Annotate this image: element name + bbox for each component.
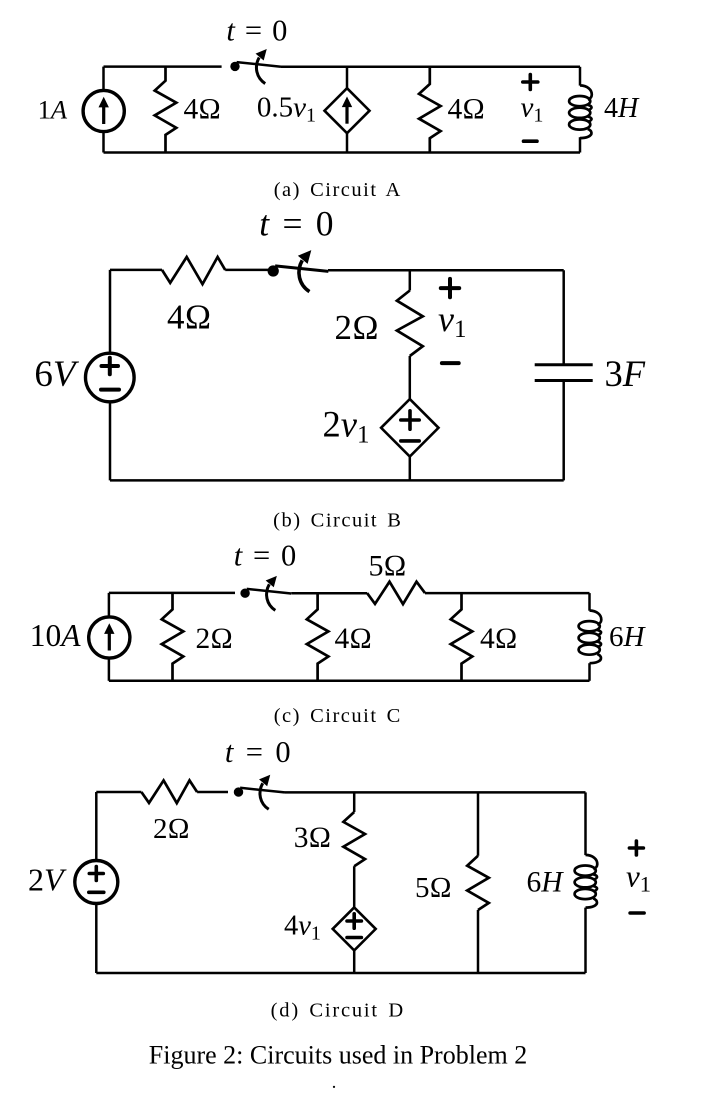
wire mid branch between (B)	[409, 356, 412, 399]
wire top rail mid (C)	[291, 592, 367, 595]
svg-text:(a) Circuit A: (a) Circuit A	[274, 179, 402, 201]
inductor 4H coil	[569, 85, 592, 138]
inductor 6H coil (C)	[579, 611, 602, 664]
svg-text:(c) Circuit C: (c) Circuit C	[274, 705, 402, 727]
switch t=0 (A)	[230, 50, 281, 84]
wire mid branch top (B)	[409, 270, 412, 290]
dependent current source 0.5v1 diamond	[325, 88, 370, 133]
svg-text:t = 0: t = 0	[226, 13, 288, 47]
svg-text:(b) Circuit B: (b) Circuit B	[273, 510, 402, 532]
resistor 4Ω right (A)	[419, 67, 441, 153]
resistor 4Ω first (C)	[307, 593, 329, 681]
wire top rail right (D)	[285, 791, 586, 794]
svg-text:2v1: 2v1	[323, 404, 370, 449]
voltage source 6V circle	[86, 353, 135, 402]
v1 minus mark (D)	[630, 911, 644, 915]
inductor 6H coil (D)	[575, 855, 598, 908]
current source 1A circle	[83, 90, 124, 131]
voltage source 6V minus	[101, 388, 119, 392]
wire top rail left (A)	[104, 65, 222, 68]
wire inductor bottom (C)	[588, 663, 591, 681]
svg-text:6H: 6H	[527, 867, 565, 899]
wire right side top (B)	[562, 270, 565, 365]
wire bottom rail (C)	[109, 680, 590, 683]
wire top rail right (B)	[328, 269, 564, 272]
svg-text:2Ω: 2Ω	[153, 813, 190, 845]
svg-text:4Ω: 4Ω	[480, 623, 517, 655]
dep source 4v1 plus	[347, 914, 361, 928]
svg-text:4Ω: 4Ω	[184, 93, 221, 125]
wire 5Ω branch top (D)	[477, 792, 480, 855]
wire right side bottom (B)	[562, 381, 565, 481]
wire top rail mid (D)	[197, 791, 228, 794]
wire dep source bottom (A)	[346, 133, 349, 152]
v1 minus mark (B)	[442, 361, 459, 365]
resistor 4Ω left (A)	[155, 67, 177, 153]
v1 plus mark (B)	[441, 279, 459, 297]
resistor 2Ω horizontal (D)	[141, 780, 197, 803]
wire left top (A)	[102, 67, 105, 91]
capacitor 3F bottom plate	[535, 379, 593, 382]
dependent voltage source 2v1 diamond	[381, 399, 438, 456]
dependent current source 0.5v1 arrow	[342, 97, 352, 124]
wire bottom rail (A)	[104, 151, 581, 154]
voltage source 2V circle	[75, 861, 118, 904]
svg-text:6H: 6H	[609, 621, 647, 653]
capacitor 3F top plate	[535, 363, 593, 366]
svg-text:v1: v1	[438, 299, 466, 343]
wire left bottom (C)	[108, 658, 111, 681]
voltage source 6V plus	[102, 358, 119, 375]
wire left side (B)	[109, 270, 112, 353]
svg-text:2Ω: 2Ω	[196, 623, 233, 655]
svg-text:(d) Circuit D: (d) Circuit D	[271, 1000, 405, 1022]
svg-text:t = 0: t = 0	[225, 735, 293, 769]
svg-text:6V: 6V	[34, 354, 80, 395]
svg-text:2V: 2V	[28, 862, 67, 898]
svg-text:2Ω: 2Ω	[335, 308, 379, 347]
svg-text:v1: v1	[626, 859, 651, 897]
resistor 3Ω (D)	[343, 812, 365, 866]
dependent voltage source 4v1 diamond	[333, 907, 376, 950]
wire inductor top (A)	[579, 67, 582, 86]
switch t=0 (D)	[234, 776, 285, 810]
svg-text:4H: 4H	[604, 93, 640, 124]
resistor 4Ω second (C)	[451, 593, 473, 681]
resistor 4Ω horizontal (B)	[162, 257, 225, 284]
svg-text:.: .	[332, 1072, 337, 1093]
wire top rail mid (B)	[225, 269, 268, 272]
switch t=0 (B)	[268, 251, 329, 291]
svg-text:4v1: 4v1	[284, 911, 321, 945]
voltage source 2V minus	[89, 890, 104, 894]
svg-text:3F: 3F	[605, 353, 646, 394]
dep source 2v1 plus	[401, 411, 419, 429]
voltage source 2V plus	[89, 867, 103, 881]
svg-text:t = 0: t = 0	[259, 204, 335, 244]
svg-text:Figure 2: Circuits used in Pro: Figure 2: Circuits used in Problem 2	[149, 1041, 527, 1070]
current source 1A arrow	[99, 97, 109, 124]
svg-text:4Ω: 4Ω	[335, 623, 372, 655]
current source 10A circle	[89, 617, 130, 658]
v1 plus mark (A)	[523, 75, 538, 90]
wire inductor bottom (A)	[579, 137, 582, 152]
wire left top (C)	[108, 593, 111, 617]
resistor 5Ω horizontal (C)	[367, 582, 425, 604]
v1 minus mark (A)	[524, 139, 538, 143]
wire left bottom (A)	[102, 132, 105, 153]
dep source 2v1 minus	[401, 439, 419, 443]
wire mid branch bottom (D)	[353, 950, 356, 973]
svg-text:5Ω: 5Ω	[369, 550, 407, 583]
wire mid branch bottom (B)	[409, 457, 412, 481]
wire mid branch top (D)	[353, 792, 356, 812]
svg-text:t = 0: t = 0	[234, 538, 298, 572]
resistor 5Ω (D)	[467, 856, 489, 910]
wire top rail right (C)	[425, 592, 590, 595]
wire top rail right (A)	[281, 66, 580, 69]
wire inductor top (D)	[584, 792, 587, 855]
svg-text:v1: v1	[521, 92, 544, 127]
current source 10A arrow	[104, 623, 114, 650]
wire inductor bottom (D)	[584, 908, 587, 973]
svg-text:10A: 10A	[30, 618, 82, 653]
wire left bottom (B)	[109, 402, 112, 481]
switch t=0 (C)	[240, 577, 291, 611]
wire inductor top (C)	[588, 593, 591, 611]
svg-text:3Ω: 3Ω	[294, 822, 331, 854]
wire top rail left (C)	[109, 592, 235, 595]
svg-text:4Ω: 4Ω	[448, 93, 485, 125]
v1 plus mark (D)	[629, 841, 643, 855]
svg-text:0.5v1: 0.5v1	[257, 92, 316, 127]
wire bottom rail (B)	[110, 479, 564, 482]
svg-text:5Ω: 5Ω	[415, 872, 452, 904]
wire left side top (D)	[95, 792, 98, 861]
resistor 2Ω (C)	[162, 593, 184, 681]
wire mid branch between (D)	[353, 866, 356, 907]
dep source 4v1 minus	[347, 936, 361, 940]
wire left side bottom (D)	[95, 904, 98, 974]
svg-text:4Ω: 4Ω	[167, 298, 211, 337]
wire top rail left (B)	[110, 269, 162, 272]
wire dep source top (A)	[346, 67, 349, 88]
resistor 2Ω (B)	[397, 291, 423, 357]
wire top rail left (D)	[96, 791, 141, 794]
wire 5Ω branch bottom (D)	[477, 910, 480, 973]
svg-text:1A: 1A	[38, 95, 68, 125]
wire bottom rail (D)	[96, 972, 585, 975]
